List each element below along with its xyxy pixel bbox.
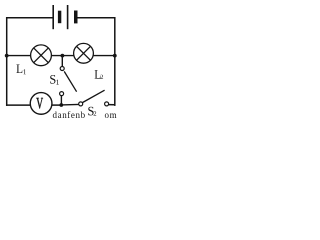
battery cell 1 long plate [52, 5, 54, 29]
wire top-left horizontal [6, 17, 53, 19]
wire bottom toward S2 [61, 103, 79, 106]
S1 bottom terminal circle [60, 92, 64, 96]
wire middle segment 1 [7, 55, 31, 57]
switch S2 [79, 90, 109, 106]
wire bottom middle segment [52, 104, 62, 106]
node D (bottom junction dot) [59, 103, 63, 107]
svg-text:danfenb: danfenb [53, 110, 86, 119]
wire middle segment 2 [51, 55, 74, 57]
switch S1 [60, 56, 77, 105]
wire top-right horizontal [77, 17, 115, 19]
battery cell 2 short thick plate [74, 11, 78, 24]
label S2 [88, 107, 93, 116]
wire bottom-left horizontal [6, 104, 30, 106]
wire bottom-right horizontal [109, 104, 115, 106]
node A (left junction dot) [5, 54, 9, 58]
label S1 [50, 75, 55, 84]
wire left vertical [6, 17, 8, 106]
wire S1 upper stub [61, 56, 63, 67]
S2 left terminal circle [79, 102, 83, 106]
S1 top terminal circle [60, 67, 64, 71]
svg-text:om: om [105, 110, 118, 119]
battery cell 2 long plate [67, 5, 69, 29]
wire S1 lower stub [60, 96, 62, 105]
voltmeter V [30, 93, 52, 115]
S2 right terminal circle [105, 102, 109, 106]
S1 lever (open) [64, 71, 76, 91]
node B (S1 top junction dot) [61, 54, 65, 58]
wire right vertical [114, 17, 116, 106]
S2 lever (open) [83, 90, 105, 102]
lamp L2 [74, 43, 94, 63]
wire middle segment 3 [93, 55, 115, 57]
label L1 [16, 64, 22, 73]
node C (right junction dot) [113, 54, 117, 58]
label L2 [95, 70, 101, 79]
lamp L1 [31, 45, 52, 66]
battery cell 1 short thick plate [58, 11, 61, 24]
